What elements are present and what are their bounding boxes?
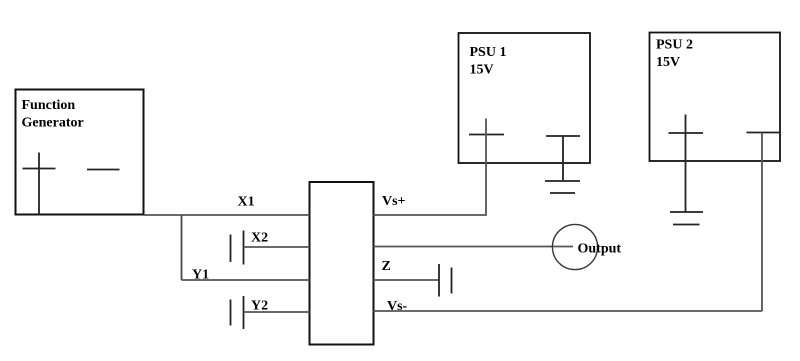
capacitor X2 ground coupling	[231, 231, 244, 265]
PSU 1 label	[470, 45, 507, 78]
wire Y1 branch vertical	[181, 215, 183, 280]
PSU 1 box	[459, 33, 591, 163]
PSU2 + terminal	[669, 115, 704, 213]
PSU 2 label	[656, 38, 693, 71]
svg-text:Generator: Generator	[22, 116, 84, 131]
wire Y2	[244, 311, 310, 313]
capacitor Y2 ground coupling	[231, 296, 244, 329]
svg-text:Y2: Y2	[251, 299, 268, 314]
svg-text:Vs+: Vs+	[382, 194, 406, 209]
svg-text:Function: Function	[22, 98, 76, 113]
svg-text:X2: X2	[251, 231, 268, 246]
wire Y1	[182, 279, 310, 281]
FG + terminal	[23, 153, 56, 216]
output circle	[552, 224, 597, 269]
PSU1 - terminal	[546, 136, 580, 181]
PSU1 ground	[545, 181, 580, 193]
svg-text:X1: X1	[238, 195, 255, 210]
wire output	[374, 246, 574, 248]
PSU2 - terminal	[747, 132, 781, 134]
svg-text:Vs-: Vs-	[387, 299, 408, 314]
svg-text:Y1: Y1	[192, 268, 209, 283]
svg-text:PSU 1: PSU 1	[470, 45, 507, 60]
wire Z	[374, 279, 440, 281]
FG - terminal	[87, 169, 120, 171]
svg-text:15V: 15V	[470, 63, 494, 78]
PSU2 ground	[670, 212, 703, 225]
PSU1 + terminal	[469, 134, 504, 136]
wire Vs-	[374, 310, 763, 312]
PSU 2 box	[650, 33, 781, 162]
wire PSU2 minus to Vs-	[761, 133, 763, 312]
svg-text:15V: 15V	[656, 55, 680, 70]
multiplier block U1	[310, 182, 374, 345]
wire X2	[244, 246, 310, 248]
wire Vs+ to PSU1	[374, 119, 487, 216]
wire X1	[144, 214, 310, 216]
function generator label	[22, 98, 84, 131]
svg-text:Z: Z	[382, 259, 391, 274]
svg-text:PSU 2: PSU 2	[656, 38, 693, 53]
function generator box	[16, 90, 144, 215]
svg-text:Output: Output	[578, 242, 622, 257]
capacitor Z	[439, 264, 452, 297]
